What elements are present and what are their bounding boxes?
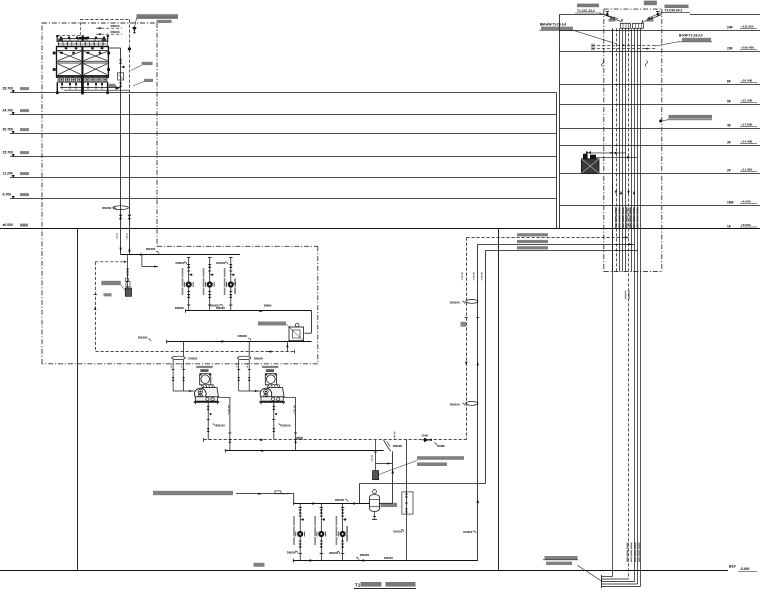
- svg-text:DN150: DN150: [216, 423, 225, 427]
- svg-text:DN80: DN80: [437, 444, 445, 448]
- svg-text:+106.400: +106.400: [741, 45, 754, 49]
- svg-text:DN100: DN100: [111, 30, 120, 34]
- svg-text:+11.400: +11.400: [741, 167, 752, 171]
- svg-text:DN300: DN300: [238, 334, 248, 338]
- svg-text:B-KW-T1-23-3,4: B-KW-T1-23-3,4: [679, 33, 703, 37]
- svg-text:DN200: DN200: [216, 261, 225, 265]
- svg-text:T1: T1: [355, 583, 361, 588]
- svg-text:+17.800: +17.800: [741, 122, 753, 126]
- svg-text:DN150: DN150: [282, 423, 291, 427]
- svg-text:28.700: 28.700: [3, 87, 13, 91]
- svg-text:DN200: DN200: [175, 306, 184, 310]
- svg-text:DN200: DN200: [287, 551, 296, 555]
- svg-text:DN200: DN200: [176, 261, 185, 265]
- svg-text:24F: 24F: [727, 26, 733, 30]
- svg-text:15.700: 15.700: [3, 151, 13, 155]
- svg-text:±0.000: ±0.000: [741, 223, 751, 227]
- svg-text:DN250: DN250: [450, 402, 460, 406]
- svg-text:20.700: 20.700: [3, 128, 13, 132]
- svg-text:DN200: DN200: [188, 357, 197, 361]
- svg-text:DN250: DN250: [450, 300, 460, 304]
- svg-text:DN250: DN250: [210, 304, 220, 308]
- svg-text:DN300: DN300: [360, 553, 370, 557]
- svg-text:DN150: DN150: [111, 24, 120, 28]
- svg-text:3F: 3F: [727, 141, 731, 145]
- svg-text:DN80: DN80: [264, 304, 272, 308]
- svg-text:DN300: DN300: [102, 206, 112, 210]
- svg-text:24.700: 24.700: [3, 109, 13, 113]
- svg-text:+6.400: +6.400: [741, 199, 751, 203]
- svg-text:DN350: DN350: [463, 530, 472, 534]
- svg-text:BM-HW-T1-23-3,4: BM-HW-T1-23-3,4: [540, 22, 566, 26]
- svg-text:1F: 1F: [727, 225, 731, 229]
- svg-text:6F: 6F: [727, 80, 731, 84]
- svg-text:1MF: 1MF: [727, 201, 734, 205]
- svg-text:DN200: DN200: [254, 357, 263, 361]
- svg-text:11.200: 11.200: [3, 172, 13, 176]
- svg-text:DN300: DN300: [335, 498, 344, 502]
- svg-text:DN300: DN300: [138, 336, 148, 340]
- svg-text:-5.000: -5.000: [740, 567, 750, 571]
- svg-text:23F: 23F: [727, 47, 733, 51]
- svg-text:T1-CIN-24-2: T1-CIN-24-2: [665, 9, 683, 13]
- svg-text:DN350: DN350: [384, 556, 393, 560]
- svg-text:B1F: B1F: [729, 565, 737, 569]
- svg-text:DN150: DN150: [393, 530, 402, 534]
- svg-text:6.700: 6.700: [3, 193, 12, 197]
- svg-text:2F: 2F: [727, 169, 731, 173]
- svg-text:CHM: CHM: [422, 434, 429, 438]
- svg-text:+21.200: +21.200: [741, 98, 753, 102]
- svg-text:5F: 5F: [727, 100, 731, 104]
- svg-text:±0.000: ±0.000: [3, 223, 13, 227]
- svg-text:DN300: DN300: [393, 444, 403, 448]
- svg-text:+24.400: +24.400: [741, 78, 753, 82]
- svg-text:+14.400: +14.400: [741, 139, 753, 143]
- svg-text:+111.600: +111.600: [741, 24, 754, 28]
- svg-text:DN300: DN300: [146, 247, 156, 251]
- svg-text:4F: 4F: [727, 124, 731, 128]
- svg-text:T1-CIC-24-2: T1-CIC-24-2: [577, 9, 595, 13]
